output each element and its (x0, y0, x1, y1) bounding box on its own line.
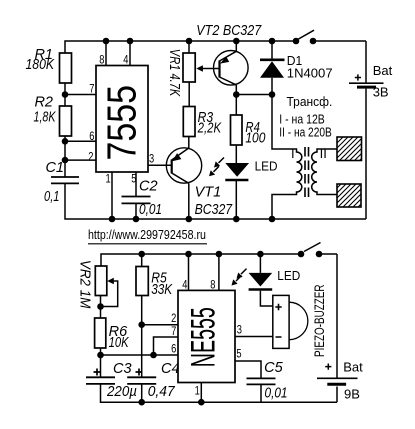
svg-text:5: 5 (236, 347, 241, 361)
svg-text:C2: C2 (139, 179, 158, 195)
resistor R5 (136, 267, 148, 296)
wire: C2 to bottom rail (135, 203, 137, 219)
wire: pin 1 (200, 383, 202, 403)
svg-text:7555: 7555 (99, 85, 145, 161)
capacitor C1 (51, 177, 79, 183)
wire: VT1 collector down to rail (188, 183, 190, 219)
svg-text:0,47: 0,47 (148, 384, 176, 400)
svg-text:LED: LED (277, 268, 300, 283)
transistor VT1 (166, 148, 233, 218)
wire: pin 3 to piezo (235, 336, 273, 338)
svg-text:100: 100 (245, 131, 265, 147)
wire: VR2 wiper loop (102, 281, 118, 307)
wire: LED to piezo + (260, 291, 272, 306)
capacitor C4 (127, 377, 156, 384)
wire: LED to bottom rail (235, 181, 237, 219)
svg-text:1N4007: 1N4007 (287, 66, 333, 81)
svg-text:2: 2 (171, 311, 176, 325)
op-amp U2 NE555 IC body (178, 290, 235, 382)
svg-text:C5: C5 (264, 360, 283, 376)
svg-text:220µ: 220µ (106, 384, 137, 400)
svg-text:1: 1 (106, 172, 111, 186)
wire: VR1 wiper to VT2 base (203, 68, 220, 70)
svg-text:PIEZO-BUZZER: PIEZO-BUZZER (311, 284, 327, 357)
wire: VR1 top to rail (188, 41, 190, 53)
svg-text:5: 5 (131, 172, 136, 186)
svg-text:Bat: Bat (343, 359, 363, 374)
svg-text:0,01: 0,01 (139, 202, 162, 218)
wire: VT2 collector to node (235, 85, 237, 95)
wire: node to D1/transformer (236, 94, 272, 96)
svg-text:9B: 9B (344, 387, 360, 402)
svg-text:3B: 3B (373, 84, 389, 99)
wire: top rail 2 left segment (101, 254, 301, 266)
svg-text:Трансф.: Трансф. (287, 94, 333, 109)
wire: VT1 emitter up to R3 (188, 137, 190, 149)
svg-text:Bat: Bat (373, 63, 393, 78)
wire: pin 4 (129, 41, 131, 66)
resistor R4 (231, 115, 243, 145)
svg-text:I: I (291, 146, 295, 161)
wire: R3 to VR1 (188, 82, 190, 107)
svg-text:VR1 4.7K: VR1 4.7K (166, 49, 182, 98)
wire: C1 to bottom rail (65, 183, 366, 219)
svg-text:C3: C3 (113, 361, 132, 377)
resistor R6 (95, 318, 106, 348)
wire: pin 5 to C2 (135, 172, 137, 197)
svg-text:4: 4 (182, 277, 187, 291)
wire: pin 8 (105, 41, 107, 66)
transistor VT2 (214, 51, 249, 86)
terminal block 1 (hatched) (337, 137, 362, 161)
svg-text:2: 2 (88, 150, 93, 164)
wire: node row y355 to pin 6 (101, 354, 179, 356)
wire: C3 down (100, 355, 102, 377)
svg-text:6: 6 (89, 129, 94, 143)
svg-text:7: 7 (89, 82, 94, 96)
wire: VR2 bottom to R6 (100, 296, 102, 319)
svg-text:2,2K: 2,2K (197, 121, 222, 137)
wire: C4 to rail (141, 384, 143, 402)
svg-text:VT2 BC327: VT2 BC327 (196, 23, 262, 39)
svg-text:NE555: NE555 (185, 307, 223, 367)
terminal block 2 (hatched) (337, 184, 361, 207)
svg-text:6: 6 (171, 341, 176, 355)
wire: pin 7 (65, 94, 96, 96)
svg-text:II - на 220В: II - на 220В (279, 124, 332, 139)
wire: pin 4 (188, 254, 190, 290)
wire: pin 3 to VT1 base (148, 164, 172, 166)
LED D3 (232, 251, 273, 290)
wire: top rail 2 right segment (319, 253, 337, 255)
wire: pin 5 to C5 (235, 361, 261, 378)
svg-text:R2: R2 (34, 94, 53, 110)
wire: C5 to rail (260, 384, 262, 402)
node: junction R1/R2/pin7 (62, 91, 69, 98)
op-amp U1 7555 IC body (96, 66, 148, 173)
wire: R5 bottom to pin2/C4 (141, 296, 143, 378)
battery Bat 3B (365, 41, 367, 82)
wire: R4 from node (235, 95, 237, 116)
svg-text:BC327: BC327 (195, 202, 233, 218)
capacitor C2 (122, 197, 151, 204)
svg-text:C4: C4 (161, 361, 180, 377)
LED D2 (209, 158, 249, 181)
wire: top rail right segment (313, 40, 366, 42)
wire: R1 to R2 (64, 83, 66, 106)
switch S1 (293, 38, 300, 45)
svg-text:C1: C1 (45, 160, 64, 176)
svg-text:4: 4 (123, 53, 128, 67)
wire: top rail left segment (65, 41, 296, 53)
capacitor C3 (86, 377, 115, 384)
svg-text:VT1: VT1 (195, 185, 222, 201)
piezo buzzer (273, 295, 308, 348)
wire: pin 6 (65, 140, 96, 142)
node: pin6 junction (62, 138, 69, 145)
wire: pin 2 (65, 159, 96, 161)
wire: pin 2 (142, 324, 178, 326)
svg-text:http://www.299792458.ru: http://www.299792458.ru (88, 227, 206, 242)
svg-text:8: 8 (210, 277, 215, 291)
wire: pin 8 (218, 254, 220, 290)
svg-text:1,8K: 1,8K (34, 110, 57, 126)
wire: pin 7 L (154, 337, 179, 355)
node: pin2 junction (62, 157, 69, 164)
svg-text:33K: 33K (151, 282, 173, 298)
svg-text:7: 7 (171, 324, 176, 338)
svg-text:LED: LED (255, 159, 278, 174)
transformer T1 (269, 95, 337, 223)
wire: pin 1 (111, 172, 113, 219)
svg-text:10K: 10K (109, 335, 130, 351)
svg-text:3: 3 (237, 323, 242, 337)
resistor R1 (60, 53, 72, 83)
wire: R6 bottom to node (100, 348, 102, 355)
resistor VR1 (potentiometer) (183, 53, 195, 82)
svg-text:II: II (320, 146, 327, 161)
wire: R5 top to rail (141, 254, 143, 267)
resistor VR2 (potentiometer) (95, 266, 107, 296)
diode D1 1N4007 (271, 41, 273, 60)
svg-text:1: 1 (195, 384, 200, 398)
svg-text:VR2 1M: VR2 1M (77, 260, 93, 309)
wire: VT2 emitter to rail (235, 41, 237, 51)
svg-text:0,1: 0,1 (44, 189, 60, 205)
capacitor C5 (247, 378, 276, 384)
svg-text:3: 3 (149, 151, 154, 165)
resistor R2 (60, 106, 72, 136)
resistor R3 (183, 107, 195, 137)
svg-text:180K: 180K (26, 57, 56, 73)
switch S2 (298, 251, 305, 258)
battery Bat 9B (336, 254, 338, 378)
wire: R4 to LED (235, 145, 237, 164)
svg-text:8: 8 (99, 53, 104, 67)
wire: R2 down to C1 (64, 136, 66, 177)
wire: C3 to bottom rail 2 (101, 384, 338, 402)
svg-text:0,01: 0,01 (265, 386, 288, 402)
